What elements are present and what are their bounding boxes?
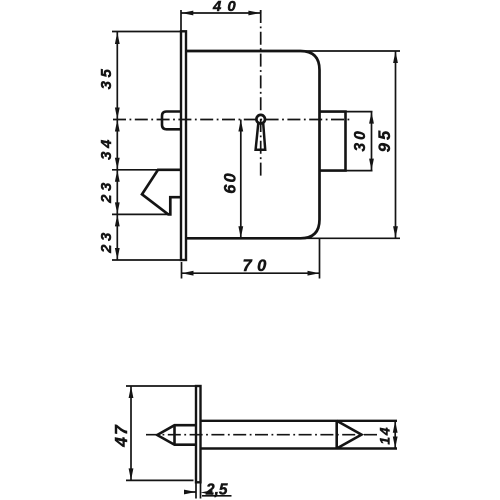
svg-text:47: 47 [111, 423, 131, 447]
svg-text:35: 35 [98, 66, 115, 90]
svg-text:2,5: 2,5 [205, 482, 228, 499]
svg-text:40: 40 [212, 0, 242, 15]
svg-text:60: 60 [221, 171, 239, 193]
svg-text:23: 23 [98, 179, 115, 204]
svg-text:23: 23 [98, 229, 115, 254]
svg-text:30: 30 [352, 128, 369, 151]
svg-text:34: 34 [98, 136, 115, 160]
svg-text:14: 14 [377, 426, 393, 445]
svg-text:95: 95 [376, 128, 394, 152]
svg-text:70: 70 [243, 257, 272, 275]
